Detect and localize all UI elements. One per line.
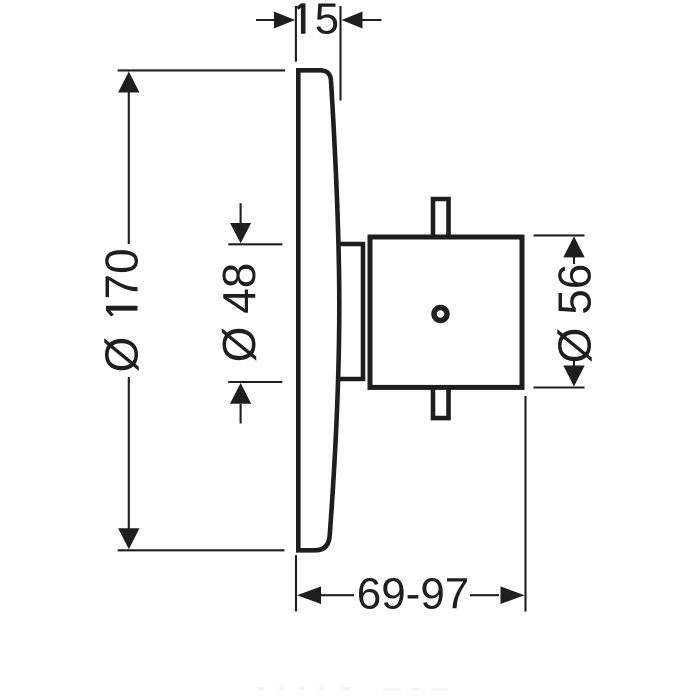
svg-text:69-97: 69-97 xyxy=(357,570,470,619)
svg-text:Ø 56: Ø 56 xyxy=(549,264,601,364)
svg-text:Ø: Ø xyxy=(96,337,148,373)
svg-text:5: 5 xyxy=(315,0,339,44)
svg-text:70: 70 xyxy=(96,248,148,299)
svg-text:Ø 48: Ø 48 xyxy=(213,263,265,363)
